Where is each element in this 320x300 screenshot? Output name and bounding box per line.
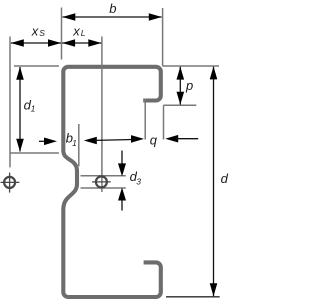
svg-text:d: d [221,171,229,186]
extension line left (x_S datum / hole axis left) [9,37,11,168]
extension line shared b / x_S / x_L at web face [61,8,63,60]
extension line q left (lip end) [144,99,146,140]
dimension b_1 left arrow (points right) [44,138,57,146]
extension line p bottom [164,104,197,106]
extension line d_3 bottom [81,187,126,189]
dimension p line [179,67,181,105]
dimension x_L line [62,42,101,44]
svg-text:q: q [150,132,158,147]
dimension x_L right arrow [88,39,101,47]
svg-text:1: 1 [31,104,36,114]
svg-text:x: x [72,24,80,39]
C-profile cross-section outline [63,67,161,297]
dimension d bottom arrow [210,283,218,296]
dimension b line [63,16,162,18]
extension line top reference (p top / d top) [163,65,219,67]
svg-text:p: p [185,78,193,93]
hole marker left circle [4,177,15,188]
dimension d_1 line [19,67,21,152]
dimension x_L left arrow [62,39,75,47]
extension line hole centreline / x_L right [101,37,103,193]
dimension q left arrow (points right) [131,135,144,143]
dimension x_S line [11,42,61,44]
extension line right of b at profile right face [162,8,164,66]
svg-text:L: L [81,28,86,38]
extension line q right [163,105,165,139]
dimension d_1 bottom arrow [16,139,24,152]
extension line d bottom [166,296,220,298]
dimension b right arrow [149,13,162,21]
svg-text:b: b [109,1,116,16]
svg-text:x: x [31,24,39,39]
dimension p bottom arrow [177,92,185,105]
hole marker left crosshair horizontal [1,181,20,183]
dimension x_S left arrow [11,39,24,47]
dimension x_S right arrow [48,39,61,47]
extension line b_1 right (joggle face) [78,124,80,166]
dimension b_1 left shaft [39,140,47,142]
dimension b_1 right shaft [95,139,136,140]
svg-text:1: 1 [72,138,77,148]
hole marker centre crosshair horizontal [92,181,111,183]
dimension b_1 right arrow (points left) [84,137,97,145]
hole marker centre circle [96,176,107,187]
hole marker left crosshair vertical [9,173,11,193]
dimension p top arrow [177,67,185,80]
dimension d line [213,67,215,296]
dimension d top arrow [210,66,218,79]
dimension d_3 bottom arrow (points up) [121,200,123,211]
dimension d_3 top arrow (points down) [121,151,123,165]
svg-text:3: 3 [136,176,141,186]
extension line d_1 top [14,65,59,67]
dimension b left arrow [62,13,75,21]
extension line d_1 bottom [10,152,59,154]
dimension q right arrow (points left) [165,135,178,143]
extension line d_3 top [81,175,126,177]
dimension d_1 top arrow [16,67,24,80]
dimension q right shaft [177,138,199,140]
svg-text:S: S [39,28,45,38]
